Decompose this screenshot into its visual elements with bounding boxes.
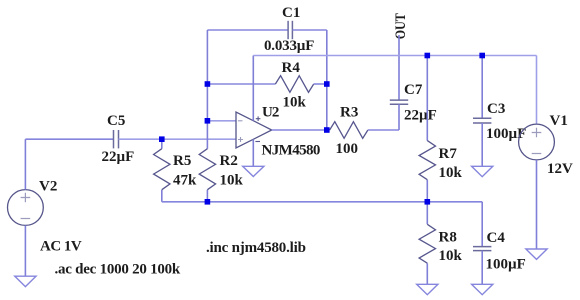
svg-text:R4: R4 — [282, 60, 301, 76]
svg-text:V1: V1 — [550, 113, 568, 129]
capacitor C5 — [114, 130, 119, 148]
resistor R8 — [426, 202, 428, 284]
wire rail to V1 — [536, 56, 538, 125]
wire V1 bottom — [536, 160, 538, 249]
wire input row from V2 — [25, 138, 113, 140]
wire C4 top — [481, 202, 483, 247]
voltage source V1 — [519, 124, 555, 160]
svg-text:R2: R2 — [220, 153, 238, 169]
wire bias row — [162, 201, 482, 203]
resistor R4 — [275, 76, 313, 93]
wire C4 bottom — [481, 251, 483, 285]
resistor R3 — [327, 129, 330, 131]
junction node (rail / C3) — [479, 53, 485, 59]
wire C7 bottom — [398, 104, 400, 130]
svg-text:22µF: 22µF — [404, 108, 437, 124]
junction node (bias / R2) — [205, 199, 211, 205]
wire V2 bottom — [24, 225, 26, 276]
ground (V2) — [15, 276, 36, 286]
op-amp U2 triangle — [236, 112, 272, 148]
wire feedback right vertical — [326, 30, 328, 130]
capacitor C4 — [473, 247, 491, 251]
op-amp input plus sign — [238, 137, 243, 142]
junction node (feedback left / R4) — [205, 81, 211, 87]
svg-text:V2: V2 — [39, 178, 57, 194]
op-amp V+ label — [256, 116, 261, 121]
wire V+ rail — [253, 55, 536, 57]
wire C3 bottom — [481, 123, 483, 166]
wire C1 top row right — [292, 29, 326, 31]
resistor R2 — [206, 121, 208, 202]
resistor R7 — [426, 56, 428, 202]
svg-text:NJM4580: NJM4580 — [262, 142, 320, 158]
svg-text:12V: 12V — [547, 161, 573, 177]
svg-text:100: 100 — [336, 141, 359, 157]
capacitor C7 — [390, 100, 408, 104]
svg-text:100µF: 100µF — [486, 257, 526, 273]
wire OUT vertical — [398, 35, 400, 100]
svg-text:47k: 47k — [173, 173, 197, 189]
capacitor C1 — [288, 21, 292, 39]
svg-text:C3: C3 — [487, 101, 505, 117]
junction node (rail / R7) — [425, 53, 431, 59]
svg-text:.inc njm4580.lib: .inc njm4580.lib — [206, 240, 306, 256]
op-amp V- label — [255, 141, 260, 143]
svg-text:10k: 10k — [283, 95, 307, 111]
wire R4 row left lead — [207, 83, 275, 85]
op-amp V- power pin — [252, 139, 254, 166]
ground (C3) — [472, 166, 493, 176]
wire feedback left vertical — [206, 30, 208, 121]
wire R4 row right lead — [314, 83, 327, 85]
junction node (C5 / R5) — [159, 136, 165, 142]
ground (R8) — [417, 284, 438, 294]
ground (op-amp V-) — [243, 166, 264, 176]
svg-text:R5: R5 — [173, 153, 191, 169]
ground (V1) — [526, 249, 547, 259]
svg-text:10k: 10k — [439, 165, 463, 181]
wire R3 right lead — [368, 129, 399, 131]
wire V2 top — [24, 139, 26, 189]
svg-text:R3: R3 — [340, 105, 358, 121]
op-amp V+ power pin — [252, 56, 254, 121]
voltage source V2 — [8, 190, 44, 226]
svg-text:R7: R7 — [439, 146, 458, 162]
svg-text:10k: 10k — [439, 248, 463, 264]
capacitor C3 — [473, 118, 491, 123]
svg-text:AC 1V: AC 1V — [40, 239, 82, 255]
svg-text:C4: C4 — [487, 230, 506, 246]
ground (C4) — [472, 284, 493, 294]
svg-text:C7: C7 — [404, 82, 423, 98]
svg-text:OUT: OUT — [393, 13, 409, 39]
wire C3 top — [481, 56, 483, 119]
svg-text:R8: R8 — [439, 229, 457, 245]
junction node (feedback right / R4-C1) — [324, 81, 330, 87]
resistor R5 — [161, 139, 163, 202]
wire inverting input — [207, 120, 236, 122]
junction node (inverting input) — [205, 118, 211, 124]
wire op-amp output — [272, 129, 327, 131]
svg-text:U2: U2 — [262, 105, 279, 121]
op-amp input minus sign — [238, 120, 243, 122]
svg-text:10k: 10k — [220, 173, 244, 189]
wire input row to op-amp — [119, 138, 237, 140]
svg-text:C5: C5 — [107, 113, 125, 129]
svg-text:.ac dec 1000 20 100k: .ac dec 1000 20 100k — [55, 261, 181, 277]
svg-text:C1: C1 — [282, 5, 300, 21]
svg-text:22µF: 22µF — [102, 149, 135, 165]
junction node (bias / R7-R8) — [425, 199, 431, 205]
junction node (op-amp output / R3) — [324, 127, 330, 133]
wire C1 top row left — [207, 29, 288, 31]
svg-text:0.033µF: 0.033µF — [264, 38, 314, 54]
